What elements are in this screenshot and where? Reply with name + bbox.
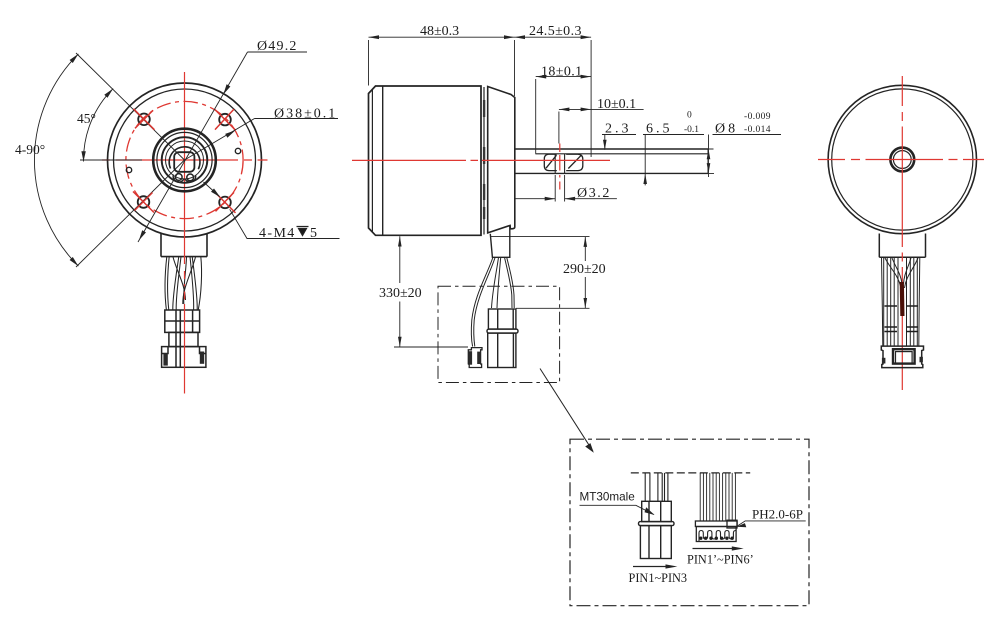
red center line side view	[352, 159, 610, 161]
PH2.0 wires	[700, 473, 735, 521]
wire connector stack (front view)	[162, 310, 206, 367]
PH2.0 label leader	[737, 521, 806, 526]
dim 18 extension left	[535, 79, 537, 154]
wire connector big (side view)	[487, 309, 518, 368]
svg-text:PIN1’~PIN6’: PIN1’~PIN6’	[687, 553, 754, 567]
bolt hole lower-right M4	[219, 197, 231, 209]
hub circle 3 (bearing bore)	[162, 137, 208, 183]
svg-text:Ø38±0.1: Ø38±0.1	[274, 107, 337, 122]
red vertical centerline	[184, 72, 186, 394]
SIDE VIEW GROUP	[352, 24, 781, 453]
wire bundle (back view)	[882, 257, 920, 346]
dim line 10	[559, 108, 644, 110]
dim dia 49.2 leader line	[138, 52, 248, 242]
wire bundle (front view)	[165, 257, 201, 310]
dim 4-M4 leader	[230, 209, 340, 238]
arrowheads 48	[369, 35, 515, 39]
dim 290 extension top	[491, 236, 590, 238]
arrowhead dia38 at bolt circle	[225, 130, 235, 137]
dim dia 38 underline	[255, 118, 339, 120]
red cross marks on bolt holes	[133, 109, 236, 213]
wire start dashed line	[631, 472, 750, 474]
stator housing outline	[488, 87, 515, 233]
wires from neck	[471, 257, 514, 346]
red vertical centerline (back)	[901, 76, 903, 390]
circlip horseshoe arc	[169, 147, 200, 169]
arrowheads dia3.2	[545, 197, 575, 201]
arrowheads 24.5	[515, 35, 592, 39]
PIN1-PIN3 arrow	[633, 566, 670, 568]
small pilot hole right	[235, 148, 240, 153]
bolt hole lower-left M4	[138, 196, 150, 208]
svg-text:2.3: 2.3	[605, 122, 632, 137]
arrowheads dia8	[707, 149, 711, 173]
PIN1'-PIN6' arrow	[693, 548, 737, 550]
svg-text:290±20: 290±20	[563, 262, 606, 277]
arrowhead dia49.2 at line end	[139, 230, 146, 240]
svg-text:-0.009: -0.009	[744, 112, 771, 122]
bell left band line	[382, 86, 384, 235]
dim 24.5/18/10 extension right	[590, 40, 592, 157]
4-90 degree arc	[34, 54, 78, 266]
crimp marks on bundle	[885, 306, 919, 332]
red horizontal centerline	[102, 159, 268, 161]
MT30 male connector body	[639, 501, 675, 558]
leader arrow to detail view	[540, 369, 593, 452]
wire connector small (side view)	[468, 348, 482, 368]
dim 48/24.5 extension mid	[514, 40, 516, 96]
svg-text:4-M4: 4-M4	[259, 226, 296, 241]
arrowhead dia49.2 at outer circle	[223, 84, 230, 94]
shaft hole inner (back)	[893, 151, 911, 169]
thread depth symbol	[297, 227, 309, 236]
detail border chain-line box	[570, 439, 809, 606]
svg-text:330±20: 330±20	[379, 286, 422, 301]
arrowheads 330	[398, 236, 402, 347]
svg-text:24.5±0.3: 24.5±0.3	[529, 24, 582, 39]
radial line B through lower-left hole	[76, 160, 185, 267]
dim 290 extension bottom	[516, 307, 590, 309]
dark wire core (back view)	[900, 282, 905, 316]
dim dia 38 leader line	[185, 119, 255, 161]
dim line 18	[536, 76, 591, 78]
arrowhead 4-M4 radial	[211, 189, 220, 198]
red groove center mark	[559, 144, 561, 190]
svg-text:10±0.1: 10±0.1	[597, 97, 636, 112]
svg-text:5: 5	[310, 226, 317, 241]
arrowhead top of 45 arc	[104, 89, 113, 98]
svg-text:4-90°: 4-90°	[15, 142, 45, 157]
dim line 330	[399, 236, 401, 347]
svg-text:Ø8: Ø8	[715, 122, 738, 137]
arrowhead top of 4-90 arc	[70, 54, 79, 63]
svg-text:MT30male: MT30male	[580, 491, 635, 504]
bell left rim inner line	[371, 90, 373, 232]
svg-text:Ø49.2: Ø49.2	[257, 39, 298, 54]
rotor bell outline	[369, 86, 482, 235]
shaft end face	[707, 149, 709, 173]
inner rim circle	[114, 89, 256, 231]
mount neck (side view)	[490, 226, 510, 257]
dim 10 extension left	[558, 112, 560, 144]
arrowheads 290	[584, 237, 588, 309]
45 degree arc	[83, 89, 113, 162]
shaft flat step line	[535, 153, 708, 155]
PH2.0 comb circles	[699, 537, 734, 540]
PH2.0 comb teeth	[699, 531, 736, 542]
dim dia 49.2 underline	[248, 51, 308, 53]
bell right edge seam	[481, 86, 484, 235]
svg-text:-0.014: -0.014	[744, 125, 771, 135]
svg-text:PIN1~PIN3: PIN1~PIN3	[629, 571, 688, 585]
dim line 48 and 24.5	[369, 36, 592, 38]
vent slot marks	[483, 100, 485, 219]
DETAIL VIEW GROUP	[570, 439, 809, 606]
chain-line detail box (side view)	[438, 286, 560, 382]
shaft bottom line	[515, 172, 709, 174]
shaft sleeve square	[174, 152, 194, 172]
arrowhead PH2.0 leader	[737, 523, 747, 527]
BACK VIEW GROUP	[818, 76, 984, 390]
svg-text:18±0.1: 18±0.1	[541, 65, 583, 80]
radial line A through upper-left hole	[76, 53, 185, 160]
svg-text:6.5: 6.5	[646, 122, 673, 137]
circlip ear hole right	[187, 174, 194, 181]
dim 6.5 leader	[643, 135, 704, 186]
shaft hole ring (back)	[890, 148, 914, 172]
dim 2.3 leader	[602, 135, 636, 150]
FRONT VIEW GROUP	[15, 39, 340, 394]
4-M4 radial arrow line	[204, 182, 220, 197]
black horizontal reference line to left	[80, 159, 142, 161]
hub outer circle	[153, 129, 216, 192]
svg-text:-0.1: -0.1	[684, 125, 699, 135]
dia 3.2 dim lines	[514, 198, 617, 200]
mount neck (front view)	[161, 227, 207, 257]
inner rim circle (back)	[832, 89, 973, 230]
dim 48 extension left	[368, 40, 370, 86]
svg-text:PH2.0-6P: PH2.0-6P	[752, 507, 803, 522]
arrowhead bottom of 4-90 arc	[70, 257, 79, 266]
arrowhead 2.3	[603, 140, 607, 150]
arrowhead 6.5	[643, 174, 647, 184]
arrowhead bottom of 45 arc	[81, 151, 85, 161]
dim line 290	[584, 237, 586, 309]
circlip groove verticals	[555, 154, 564, 174]
arrowheads 10	[559, 108, 591, 112]
circlip ear lobes	[173, 175, 196, 183]
red horizontal centerline (back)	[818, 159, 984, 161]
mount neck (back view)	[879, 234, 925, 258]
circlip left lobe	[544, 154, 557, 170]
circlip ear hole left	[175, 174, 182, 181]
arrowhead to detail	[585, 443, 594, 453]
svg-text:45°: 45°	[77, 111, 96, 126]
bolt hole upper-right M4	[219, 114, 231, 126]
svg-text:48±0.3: 48±0.3	[420, 24, 459, 39]
connector (back view)	[881, 346, 923, 368]
arrowheads 18	[536, 75, 591, 79]
outer circle (back)	[828, 85, 976, 233]
svg-text:0: 0	[687, 111, 692, 121]
dia8 extension and ticks	[709, 135, 715, 178]
PH2.0-6P connector body	[695, 520, 737, 541]
svg-text:Ø3.2: Ø3.2	[577, 186, 611, 201]
MT30male label leader	[580, 505, 654, 514]
hub circle 4	[166, 141, 204, 179]
bolt hole upper-left M4	[138, 114, 150, 126]
dim 330 extension bottom	[394, 346, 468, 348]
dia 3.2 extensions	[555, 175, 564, 202]
arrowhead MT30 leader	[645, 507, 655, 515]
circlip right lobe	[566, 154, 583, 170]
small pilot hole left	[126, 167, 131, 172]
dim dia8 underline	[713, 134, 782, 136]
red bolt circle dia 38	[126, 101, 243, 218]
hub circle 2	[157, 132, 212, 187]
outer circle (rotor can)	[108, 83, 262, 237]
MT30 wires	[645, 473, 668, 501]
shaft top line	[515, 148, 709, 150]
